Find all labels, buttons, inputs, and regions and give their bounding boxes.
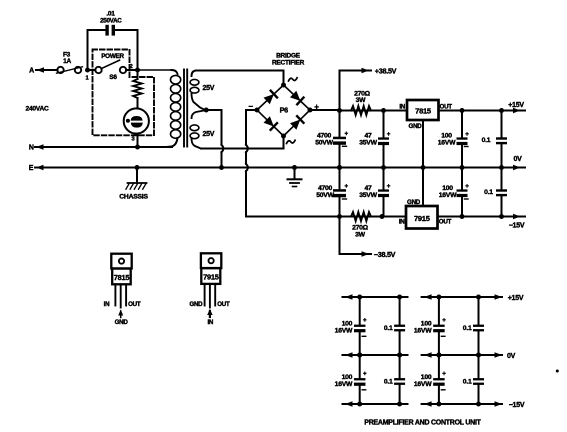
diode bridge top-left <box>264 94 274 104</box>
capacitor 47uF 35VW lower <box>383 168 385 190</box>
svg-text:+: + <box>363 371 367 378</box>
capacitor 0.1 preamp <box>399 355 401 378</box>
dashed enclosure POWER/lamp <box>93 50 155 136</box>
svg-text:+38.5V: +38.5V <box>375 67 397 76</box>
capacitor 100uF 16VW lower <box>461 168 463 190</box>
svg-text:100: 100 <box>421 320 432 327</box>
svg-text:7815: 7815 <box>114 273 130 282</box>
svg-text:4700: 4700 <box>318 185 333 192</box>
svg-text:16VW: 16VW <box>439 192 457 199</box>
capacitor 100uF 16VW preamp <box>438 355 440 378</box>
svg-text:50VW: 50VW <box>316 192 334 199</box>
svg-text:35VW: 35VW <box>359 192 377 199</box>
svg-text:−15V: −15V <box>509 402 525 409</box>
capacitor 0.1 preamp <box>478 355 480 378</box>
svg-text:0.1: 0.1 <box>482 137 491 144</box>
wire -15V rail preamp <box>422 403 502 405</box>
svg-text:7915: 7915 <box>414 214 430 223</box>
stray mark <box>556 370 559 373</box>
wire switch to node 2 <box>126 69 137 71</box>
svg-text:0.1: 0.1 <box>384 379 393 386</box>
node positive rail tap <box>337 108 342 113</box>
node preamp cap top <box>476 353 481 358</box>
svg-text:0.1: 0.1 <box>384 325 393 332</box>
svg-text:16VW: 16VW <box>414 327 432 334</box>
capacitor 0.1 upper <box>501 111 503 138</box>
node preamp cap top <box>397 353 402 358</box>
svg-text:GND: GND <box>189 301 203 308</box>
svg-text:OUT: OUT <box>128 301 141 308</box>
capacitor 0.1 lower <box>501 168 503 190</box>
wire bridge plus to positive rail <box>310 109 340 111</box>
svg-text:BRIDGE: BRIDGE <box>276 53 301 60</box>
svg-text:IN: IN <box>399 104 405 111</box>
node 47 upper on 0V <box>381 165 386 170</box>
transformer secondary lower 25V <box>192 111 205 119</box>
svg-text:100: 100 <box>441 133 452 140</box>
resistor 270ohm 3W lower <box>351 212 371 221</box>
svg-text:35VW: 35VW <box>359 140 377 147</box>
svg-text:16VW: 16VW <box>414 381 432 388</box>
node 100 upper on 0V <box>460 165 465 170</box>
svg-text:POWER: POWER <box>101 53 124 60</box>
svg-text:50VW: 50VW <box>315 140 333 147</box>
node preamp cap top <box>476 295 481 300</box>
wire A input with arrow <box>36 69 58 71</box>
node preamp cap top <box>436 295 441 300</box>
package 7815 tab <box>111 254 131 269</box>
node preamp cap top <box>357 353 362 358</box>
svg-text:−15V: −15V <box>509 223 525 230</box>
svg-text:1: 1 <box>86 76 90 82</box>
svg-text:+: + <box>345 130 349 137</box>
capacitor 100uF 16VW preamp <box>359 297 361 324</box>
arrow 7915 IN pin <box>209 311 211 317</box>
diode bridge top-right <box>290 91 300 101</box>
svg-text:GND: GND <box>409 123 423 130</box>
node 7915 out <box>460 214 465 219</box>
wire +15V rail preamp <box>343 296 408 298</box>
node preamp cap bottom <box>436 353 441 358</box>
wire 7915 GND pin <box>422 168 424 207</box>
arrowhead -15V preamp <box>495 401 503 407</box>
capacitor 100uF 16VW preamp <box>438 297 440 324</box>
resistor 270ohm 3W upper <box>351 106 371 115</box>
svg-text:47: 47 <box>364 185 372 192</box>
resistor lamp ballast <box>137 70 139 79</box>
svg-text:100: 100 <box>342 320 353 327</box>
wire secondary top lead <box>196 70 284 72</box>
svg-text:0V: 0V <box>513 156 522 163</box>
wire -15V rail preamp <box>343 403 408 405</box>
diode bridge bottom-right <box>290 120 300 130</box>
svg-text:100: 100 <box>442 185 453 192</box>
node gnd upper on 0V <box>421 165 426 170</box>
node preamp cap bottom <box>357 353 362 358</box>
svg-text:E: E <box>29 165 34 172</box>
svg-text:IN: IN <box>399 219 405 226</box>
wire lamp to N line <box>137 134 139 147</box>
capacitor 100uF 16VW preamp <box>359 355 361 378</box>
package 7915 legs <box>204 284 206 306</box>
node 4700 lower on 0V <box>337 165 342 170</box>
capacitor 0.1 preamp <box>478 297 480 324</box>
svg-text:IN: IN <box>207 319 213 326</box>
package 7815 legs <box>114 284 116 305</box>
transformer T1 primary <box>138 69 172 71</box>
package 7915 body <box>201 268 220 284</box>
svg-text:7815: 7815 <box>415 106 431 115</box>
svg-text:16VW: 16VW <box>335 381 353 388</box>
arrowhead +15V preamp <box>495 294 503 300</box>
node -15 0.1 tap <box>499 214 504 219</box>
svg-text:47: 47 <box>364 133 372 140</box>
wire bridge minus to negative rail <box>246 109 257 111</box>
node preamp cap top <box>436 353 441 358</box>
svg-text:0.1: 0.1 <box>484 189 493 196</box>
arrowhead 0V output <box>513 165 521 171</box>
package 7915 tab <box>201 253 221 268</box>
svg-text:+: + <box>442 317 446 324</box>
wire secondary bottom lead <box>201 148 284 150</box>
svg-text:250VAC: 250VAC <box>100 18 122 25</box>
node preamp cap bottom <box>397 353 402 358</box>
arrow 7815 GND pin <box>120 311 122 318</box>
svg-text:+15V: +15V <box>508 102 524 109</box>
node center tap on 0V line <box>219 165 224 170</box>
svg-text:1A: 1A <box>63 58 71 65</box>
wire E / 0V main rail <box>35 167 525 169</box>
node 3 on N line <box>135 145 140 150</box>
wire center tap down to 0V <box>221 110 223 145</box>
wire center tap <box>204 109 222 111</box>
svg-text:N: N <box>29 145 34 152</box>
node preamp cap bottom <box>476 402 481 407</box>
svg-text:+: + <box>465 131 469 138</box>
svg-text:OUT: OUT <box>217 301 230 308</box>
wire 7815 GND pin <box>422 120 424 168</box>
node +15 0.1 tap <box>499 108 504 113</box>
arrowhead 0V preamp <box>495 352 503 358</box>
node 2 <box>135 68 140 73</box>
svg-text:25V: 25V <box>203 85 215 92</box>
package 7815 body <box>112 269 131 285</box>
svg-text:RECTIFIER: RECTIFIER <box>272 60 305 67</box>
svg-text:16VW: 16VW <box>438 140 456 147</box>
label ~ bottom <box>287 140 296 143</box>
node negative rail tap <box>337 214 342 219</box>
svg-text:7915: 7915 <box>203 272 219 281</box>
svg-text:+: + <box>363 317 367 324</box>
transformer core <box>183 70 185 147</box>
svg-text:270Ω: 270Ω <box>352 225 369 232</box>
svg-text:3W: 3W <box>356 97 367 104</box>
transformer secondary upper 25V <box>192 71 197 77</box>
node preamp cap bottom <box>436 402 441 407</box>
lamp neon POWER indicator <box>124 108 149 133</box>
node preamp cap bottom <box>357 402 362 407</box>
svg-text:100: 100 <box>342 374 353 381</box>
node preamp cap top <box>397 295 402 300</box>
node 4700 upper on 0V <box>337 165 342 170</box>
bridge rectifier P6 diamond <box>257 85 310 136</box>
wire +38.5V branch <box>339 71 341 111</box>
fuse F3 1A <box>57 67 63 73</box>
arrowhead -15V output <box>513 214 521 220</box>
svg-text:CHASSIS: CHASSIS <box>119 194 148 201</box>
node preamp cap top <box>357 295 362 300</box>
svg-text:IN: IN <box>104 301 110 308</box>
svg-text:3W: 3W <box>355 232 366 239</box>
svg-text:0.1: 0.1 <box>463 325 472 332</box>
svg-text:25V: 25V <box>203 131 215 138</box>
chassis ground <box>135 165 140 170</box>
svg-text:+: + <box>465 183 469 190</box>
svg-text:P6: P6 <box>280 106 289 115</box>
capacitor 47uF 35VW upper <box>383 111 385 138</box>
node 7815 out <box>460 108 465 113</box>
svg-text:0.1: 0.1 <box>463 379 472 386</box>
wire negative rail -38.5V <box>246 216 525 218</box>
svg-text:+: + <box>442 371 446 378</box>
node R-upper right <box>381 108 386 113</box>
svg-text:PREAMPLIFIER AND CONTROL UNIT: PREAMPLIFIER AND CONTROL UNIT <box>364 420 481 427</box>
svg-text:OUT: OUT <box>439 219 452 226</box>
wire node1 to switch <box>90 69 96 71</box>
node preamp cap bottom <box>476 353 481 358</box>
label ~ top <box>289 78 298 81</box>
svg-text:+: + <box>345 183 349 190</box>
svg-text:16VW: 16VW <box>335 327 353 334</box>
node preamp cap bottom <box>397 402 402 407</box>
svg-text:.01: .01 <box>106 11 115 18</box>
capacitor 4700uF 50VW lower <box>339 168 341 189</box>
svg-text:A: A <box>29 67 34 74</box>
wire -38.5V branch <box>339 217 341 255</box>
node R-lower right <box>380 214 385 219</box>
wire 0V rail preamp <box>343 354 408 356</box>
ground symbol near bridge <box>292 165 297 170</box>
svg-text:+: + <box>387 183 391 190</box>
diode bridge bottom-left <box>264 116 274 126</box>
svg-text:OUT: OUT <box>440 104 453 111</box>
svg-text:240VAC: 240VAC <box>26 105 49 112</box>
wire positive rail +38.5V <box>340 110 526 112</box>
svg-text:GND: GND <box>115 319 129 326</box>
arrowhead +15V output <box>513 108 521 114</box>
svg-text:+15V: +15V <box>508 295 524 302</box>
wire 0V rail preamp <box>422 354 502 356</box>
wire +15V rail preamp <box>422 296 502 298</box>
svg-text:0V: 0V <box>507 353 516 360</box>
capacitor 4700uF 50VW upper <box>339 111 341 137</box>
svg-text:100: 100 <box>421 374 432 381</box>
capacitor 0.1 preamp <box>399 297 401 324</box>
node center tap <box>204 108 209 113</box>
wire N line <box>35 146 172 148</box>
capacitor 100uF 16VW upper <box>461 111 463 138</box>
svg-text:4700: 4700 <box>317 132 332 139</box>
node 1 <box>85 68 90 73</box>
capacitor .01 250VAC <box>87 30 89 68</box>
node 0.1 upper on 0V <box>499 165 504 170</box>
switch S6 <box>95 67 101 73</box>
svg-text:−38.5V: −38.5V <box>374 250 396 259</box>
svg-text:3: 3 <box>132 136 136 142</box>
svg-text:+: + <box>387 131 391 138</box>
svg-text:S6: S6 <box>109 74 117 81</box>
